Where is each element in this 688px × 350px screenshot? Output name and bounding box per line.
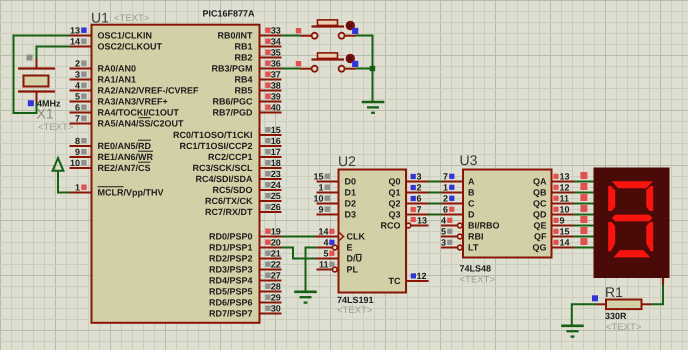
U1 pin 15 (RC0/T1OSO/T1CKI): [173, 125, 282, 140]
svg-text:RB1: RB1: [234, 42, 252, 52]
U1 pin 7 (RA5/AN4/SS/C2OUT): [70, 114, 185, 129]
U1 value PIC16F877A: [202, 9, 255, 19]
junction buttons rail: [370, 66, 375, 71]
U1 pin 1 (MCLR/Vpp/THV): [70, 183, 164, 198]
svg-text:RA2/AN2/VREF-/CVREF: RA2/AN2/VREF-/CVREF: [98, 86, 200, 96]
wire U3 to display row y=247.5: [574, 247, 594, 249]
display state square y=181.5: [580, 172, 587, 179]
svg-text:BI/RBO: BI/RBO: [468, 221, 500, 231]
U3 pin 13 (QA): [533, 172, 574, 187]
svg-text:33: 33: [271, 26, 281, 36]
wire RD1 pin20 to U2 D/U: [282, 248, 316, 259]
svg-text:QF: QF: [534, 232, 547, 242]
U1 pin 19 (RD0/PSP0): [209, 227, 282, 242]
svg-text:10: 10: [560, 205, 570, 215]
svg-text:RB4: RB4: [234, 75, 252, 85]
svg-text:330R: 330R: [605, 311, 627, 321]
U1 pin 2 (RA0/AN0): [70, 59, 137, 74]
U1 PIC16F877A body: [92, 25, 260, 323]
svg-text:3: 3: [417, 172, 422, 182]
wire U3 to display row y=225.5: [574, 225, 594, 227]
svg-text:RC7/RX/DT: RC7/RX/DT: [205, 207, 253, 217]
svg-text:RD3/PSP3: RD3/PSP3: [209, 265, 253, 275]
svg-text:X1: X1: [37, 106, 54, 122]
svg-text:36: 36: [271, 59, 281, 69]
U1 pin 25 (RC6/TX/CK): [205, 191, 282, 206]
U2 pin 10 (D2): [313, 194, 356, 209]
U2 pin 5 (D/U): [316, 249, 363, 264]
display state square y=192.5: [580, 183, 587, 190]
svg-text:11: 11: [560, 194, 570, 204]
U3 pin 14 (QG): [532, 238, 574, 253]
U3 pin 7 (A): [441, 172, 475, 187]
svg-text:D1: D1: [345, 188, 357, 198]
X1 value 4MHz: [37, 99, 61, 109]
svg-text:10: 10: [313, 194, 323, 204]
U1 pin 21 (RD2/PSP2): [209, 249, 282, 264]
svg-text:Q3: Q3: [388, 210, 400, 220]
ground (buttons): [362, 102, 385, 113]
svg-text:3: 3: [441, 238, 446, 248]
U2 pin 6 (Q2): [388, 194, 428, 209]
svg-text:RCO: RCO: [381, 221, 401, 231]
svg-text:<TEXT>: <TEXT>: [114, 13, 150, 24]
display state square y=247.5: [580, 238, 587, 245]
U1 pin 39 (RB6/PGC): [212, 92, 281, 107]
svg-text:QD: QD: [533, 210, 547, 220]
svg-text:RA4/TOCKI/C1OUT: RA4/TOCKI/C1OUT: [98, 108, 180, 118]
U1 pin 34 (RB1): [234, 37, 281, 52]
push button SW1: [300, 20, 356, 39]
display state square y=203.5: [580, 194, 587, 201]
svg-text:RE0/AN5/RD: RE0/AN5/RD: [98, 141, 152, 151]
wire U3 to display row y=236.5: [574, 236, 594, 238]
svg-text:6: 6: [417, 194, 422, 204]
U1 pin 38 (RB5): [234, 81, 281, 96]
U2 pin 4 (E): [317, 238, 353, 253]
U3 value 74LS48: [460, 264, 492, 274]
SW1 state square right: [352, 28, 358, 34]
U2 pin 9 (D3): [317, 205, 357, 220]
wire U3 to display row y=203.5: [574, 203, 594, 205]
svg-text:39: 39: [271, 92, 281, 102]
U1 pin 10 (RE2/AN7/CS): [70, 158, 151, 173]
wire SW2 to ground rail: [356, 68, 373, 70]
wire OSC2 pin14 to crystal top: [37, 47, 70, 59]
svg-text:12: 12: [560, 183, 570, 193]
U1 pin 33 (RB0/INT): [217, 26, 281, 41]
svg-text:9: 9: [318, 205, 323, 215]
U3 <TEXT> placeholder: [460, 275, 496, 286]
svg-text:3: 3: [75, 70, 80, 80]
U3 pin 12 (QB): [533, 183, 574, 198]
svg-text:QE: QE: [533, 221, 546, 231]
U1 pin 17 (RC2/CCP1): [208, 147, 282, 162]
svg-text:15: 15: [313, 172, 323, 182]
U2 pin 14 (CLK): [316, 227, 366, 242]
svg-text:U1: U1: [91, 10, 109, 26]
svg-text:OSC2/CLKOUT: OSC2/CLKOUT: [98, 42, 163, 52]
U2 74LS191 body: [339, 170, 407, 293]
svg-text:15: 15: [271, 125, 281, 135]
SW2 state square right: [352, 61, 358, 67]
svg-text:U2: U2: [338, 153, 356, 169]
svg-text:C: C: [468, 199, 475, 209]
svg-text:24: 24: [271, 180, 281, 190]
svg-text:RB5: RB5: [234, 86, 252, 96]
U1 pin 18 (RC3/SCK/SCL): [192, 158, 281, 173]
svg-text:5: 5: [441, 227, 446, 237]
U1 pin 30 (RD7/PSP7): [209, 304, 282, 319]
U1 pin 3 (RA1/AN1): [70, 70, 137, 85]
svg-text:25: 25: [271, 191, 281, 201]
U1 pin 24 (RC5/SDO): [212, 180, 281, 195]
svg-text:4: 4: [323, 238, 328, 248]
U1 pin 27 (RD4/PSP4): [209, 271, 282, 286]
svg-text:<TEXT>: <TEXT>: [38, 122, 74, 133]
svg-text:RC4/SDI/SDA: RC4/SDI/SDA: [195, 174, 253, 184]
svg-text:15: 15: [560, 227, 570, 237]
svg-text:PL: PL: [347, 265, 359, 275]
svg-text:40: 40: [271, 103, 281, 113]
svg-text:9: 9: [560, 216, 565, 226]
U1 pin 9 (RE1/AN6/WR): [70, 147, 154, 162]
svg-text:34: 34: [271, 37, 281, 47]
svg-text:13: 13: [560, 172, 570, 182]
svg-text:10: 10: [70, 158, 80, 168]
svg-text:20: 20: [271, 238, 281, 248]
svg-text:28: 28: [271, 282, 281, 292]
svg-text:RD5/PSP5: RD5/PSP5: [209, 287, 253, 297]
SW2 state square left: [296, 61, 301, 66]
wire SW1 to ground rail: [356, 35, 373, 37]
U3 pin 2 (C): [441, 194, 475, 209]
display state square y=225.5: [580, 216, 587, 223]
svg-text:RC6/TX/CK: RC6/TX/CK: [205, 196, 253, 206]
U1 pin 8 (RE0/AN5/RD): [70, 136, 152, 151]
U1 pin 40 (RB7/PGD): [212, 103, 281, 118]
svg-text:RD4/PSP4: RD4/PSP4: [209, 276, 253, 286]
svg-text:26: 26: [271, 202, 281, 212]
svg-text:2: 2: [75, 59, 80, 69]
U2 pin 15 (D0): [313, 172, 356, 187]
svg-text:QB: QB: [533, 188, 547, 198]
R1 reference label: [605, 284, 623, 300]
svg-text:14: 14: [560, 238, 570, 248]
R1 state square: [592, 295, 598, 301]
push button SW2: [300, 53, 356, 72]
wire OSC1 pin13 to crystal bottom: [14, 36, 70, 114]
U3 pin 10 (QD): [533, 205, 574, 220]
U1 pin 13 (OSC1/CLKIN): [70, 26, 153, 41]
display common cathode pin: [662, 278, 664, 285]
7-segment display body: [594, 168, 670, 279]
svg-text:RBI: RBI: [468, 232, 484, 242]
U3 pin 11 (QC): [533, 194, 574, 209]
svg-text:4: 4: [75, 81, 80, 91]
X1 reference label: [37, 106, 54, 122]
wire U2 Q1 to U3 B: [429, 192, 442, 194]
wire RD0 pin19 to U2 CLK: [282, 236, 316, 238]
display state square y=236.5: [580, 227, 587, 234]
SW1 state square left: [296, 28, 301, 33]
svg-text:13: 13: [70, 26, 80, 36]
svg-text:RA5/AN4/SS/C2OUT: RA5/AN4/SS/C2OUT: [98, 119, 185, 129]
svg-text:QA: QA: [533, 177, 547, 187]
svg-text:29: 29: [271, 293, 281, 303]
svg-text:7: 7: [75, 114, 80, 124]
svg-text:17: 17: [271, 147, 281, 157]
U1 pin 23 (RC4/SDI/SDA): [195, 169, 281, 184]
wire RB3 pin36 to button SW2: [282, 68, 301, 70]
U1 pin 37 (RB4): [234, 70, 281, 85]
svg-text:38: 38: [271, 81, 281, 91]
svg-text:1: 1: [75, 183, 80, 193]
U1 pin 6 (RA4/TOCKI/C1OUT): [70, 103, 180, 118]
wire U2 Q3 to U3 D: [429, 214, 442, 216]
svg-text:27: 27: [271, 271, 281, 281]
U1 pin 14 (OSC2/CLKOUT): [70, 37, 163, 52]
svg-text:7: 7: [417, 205, 422, 215]
U3 74LS48 body: [463, 170, 552, 258]
display state square y=214.5: [580, 205, 587, 212]
svg-text:1: 1: [318, 183, 323, 193]
svg-text:RC0/T1OSO/T1CKI: RC0/T1OSO/T1CKI: [173, 130, 253, 140]
wire U2 Q2 to U3 C: [429, 203, 442, 205]
U3 pin 9 (QE): [533, 216, 574, 231]
svg-text:RE1/AN6/WR: RE1/AN6/WR: [98, 152, 154, 162]
svg-text:RA0/AN0: RA0/AN0: [98, 64, 137, 74]
wire U3 to display row y=214.5: [574, 214, 594, 216]
svg-text:14: 14: [318, 227, 328, 237]
X1 <TEXT> placeholder: [38, 122, 74, 133]
svg-text:6: 6: [75, 103, 80, 113]
svg-text:TC: TC: [389, 276, 401, 286]
svg-text:PIC16F877A: PIC16F877A: [202, 9, 255, 19]
svg-text:30: 30: [271, 304, 281, 314]
svg-text:QC: QC: [533, 199, 547, 209]
svg-text:Q2: Q2: [388, 199, 400, 209]
svg-text:QG: QG: [532, 243, 546, 253]
svg-text:D3: D3: [345, 210, 357, 220]
svg-text:<TEXT>: <TEXT>: [337, 305, 373, 316]
U1 reference label: [91, 10, 109, 26]
wire RB0 pin33 to button SW1: [282, 35, 301, 37]
X1 state square (bottom): [28, 100, 34, 106]
wire MCLR pin1 to power symbol: [58, 171, 70, 193]
svg-text:D: D: [468, 210, 475, 220]
svg-text:12: 12: [417, 271, 427, 281]
resistor R1: [597, 300, 652, 310]
U1 pin 28 (RD5/PSP5): [209, 282, 282, 297]
U2 pin 7 (Q3): [388, 205, 428, 220]
U3 reference label: [460, 152, 478, 168]
svg-text:1: 1: [443, 183, 448, 193]
wire display common to R1: [652, 285, 664, 305]
svg-text:2: 2: [417, 183, 422, 193]
U1 pin 26 (RC7/RX/DT): [205, 202, 282, 217]
R1 value 330R: [605, 311, 627, 321]
svg-text:E: E: [347, 243, 353, 253]
U1 pin 22 (RD3/PSP3): [209, 260, 282, 275]
svg-text:RB7/PGD: RB7/PGD: [212, 108, 253, 118]
U2 value 74LS191: [337, 295, 374, 305]
ground (R1): [561, 326, 584, 337]
U3 pin 1 (B): [441, 183, 475, 198]
svg-text:Q1: Q1: [388, 188, 400, 198]
U1 pin 29 (RD6/PSP6): [209, 293, 282, 308]
svg-text:RD7/PSP7: RD7/PSP7: [209, 309, 253, 319]
svg-text:RB3/PGM: RB3/PGM: [211, 64, 252, 74]
U1 pin 35 (RB2): [234, 48, 281, 63]
svg-text:RB0/INT: RB0/INT: [217, 31, 253, 41]
svg-text:RD0/PSP0: RD0/PSP0: [209, 232, 253, 242]
wire U3 to display row y=181.5: [574, 181, 594, 183]
X1 state square (top): [27, 55, 33, 61]
wire R1 to ground: [572, 304, 597, 325]
U3 pin 5 (RBI): [441, 227, 484, 242]
svg-text:5: 5: [75, 92, 80, 102]
svg-text:<TEXT>: <TEXT>: [606, 322, 642, 333]
svg-text:19: 19: [271, 227, 281, 237]
U2 pin 12 (TC): [389, 271, 429, 286]
svg-text:B: B: [468, 188, 475, 198]
svg-text:RD6/PSP6: RD6/PSP6: [209, 298, 253, 308]
U2 pin 11 (PL): [317, 260, 359, 275]
svg-text:R1: R1: [605, 284, 623, 300]
svg-text:D0: D0: [345, 177, 357, 187]
wire U2 Q0 to U3 A: [429, 181, 442, 183]
svg-text:22: 22: [271, 260, 281, 270]
svg-text:14: 14: [70, 37, 80, 47]
svg-text:37: 37: [271, 70, 281, 80]
svg-text:RB2: RB2: [234, 53, 252, 63]
svg-text:11: 11: [319, 260, 329, 270]
svg-text:D/U: D/U: [347, 254, 363, 264]
svg-text:D2: D2: [345, 199, 357, 209]
svg-text:18: 18: [271, 158, 281, 168]
U3 pin 3 (LT): [441, 238, 479, 253]
svg-text:RD1/PSP1: RD1/PSP1: [209, 243, 253, 253]
svg-text:7: 7: [443, 172, 448, 182]
U1 <TEXT> placeholder: [114, 13, 150, 24]
U2 pin 3 (Q0): [388, 172, 428, 187]
svg-text:RA3/AN3/VREF+: RA3/AN3/VREF+: [98, 97, 168, 107]
svg-text:RA1/AN1: RA1/AN1: [98, 75, 137, 85]
U1 pin 5 (RA3/AN3/VREF+): [70, 92, 168, 107]
svg-text:5: 5: [323, 249, 328, 259]
svg-text:LT: LT: [468, 243, 479, 253]
svg-text:RE2/AN7/CS: RE2/AN7/CS: [98, 163, 151, 173]
U2 pin 2 (Q1): [388, 183, 428, 198]
svg-text:RC2/CCP1: RC2/CCP1: [208, 152, 253, 162]
crystal X1: [18, 59, 55, 103]
7-segment digit 8 (segments a-g lit): [608, 181, 653, 257]
U1 pin 20 (RD1/PSP1): [209, 238, 282, 253]
svg-text:A: A: [468, 177, 475, 187]
U3 pin 15 (QF): [534, 227, 574, 242]
svg-text:16: 16: [271, 136, 281, 146]
svg-text:RC3/SCK/SCL: RC3/SCK/SCL: [192, 163, 253, 173]
svg-text:35: 35: [271, 48, 281, 58]
svg-text:4: 4: [441, 216, 446, 226]
svg-text:CLK: CLK: [347, 232, 366, 242]
U1 pin 4 (RA2/AN2/VREF-/CVREF): [70, 81, 200, 96]
svg-text:RC5/SDO: RC5/SDO: [212, 185, 252, 195]
wire button ground rail vertical: [372, 35, 374, 103]
ground (U2 enable): [294, 292, 317, 303]
svg-text:21: 21: [271, 249, 281, 259]
U3 pin 4 (BI/RBO): [441, 216, 500, 231]
svg-text:RB6/PGC: RB6/PGC: [212, 97, 253, 107]
U2 pin 1 (D1): [317, 183, 357, 198]
svg-text:2: 2: [443, 194, 448, 204]
U1 pin 36 (RB3/PGM): [211, 59, 281, 74]
svg-text:23: 23: [271, 169, 281, 179]
svg-text:RC1/T1OSI/CCP2: RC1/T1OSI/CCP2: [179, 141, 252, 151]
svg-text:MCLR/Vpp/THV: MCLR/Vpp/THV: [98, 188, 164, 198]
svg-text:RD2/PSP2: RD2/PSP2: [209, 254, 253, 264]
svg-text:8: 8: [75, 136, 80, 146]
U2 reference label: [338, 153, 356, 169]
svg-text:74LS48: 74LS48: [460, 264, 492, 274]
U3 pin 6 (D): [441, 205, 475, 220]
svg-text:Q0: Q0: [388, 177, 400, 187]
U2 pin 13 (RCO): [381, 216, 429, 231]
U1 pin 16 (RC1/T1OSI/CCP2): [179, 136, 281, 151]
U2 <TEXT> placeholder: [337, 305, 373, 316]
svg-text:OSC1/CLKIN: OSC1/CLKIN: [98, 31, 153, 41]
svg-text:9: 9: [75, 147, 80, 157]
power symbol VCC (arrow): [53, 158, 64, 171]
svg-text:13: 13: [417, 216, 427, 226]
svg-text:74LS191: 74LS191: [337, 295, 374, 305]
svg-text:<TEXT>: <TEXT>: [460, 275, 496, 286]
wire U2 E to ground: [306, 248, 317, 292]
svg-text:6: 6: [443, 205, 448, 215]
wire U3 to display row y=192.5: [574, 192, 594, 194]
R1 <TEXT> placeholder: [606, 322, 642, 333]
svg-text:U3: U3: [460, 152, 478, 168]
